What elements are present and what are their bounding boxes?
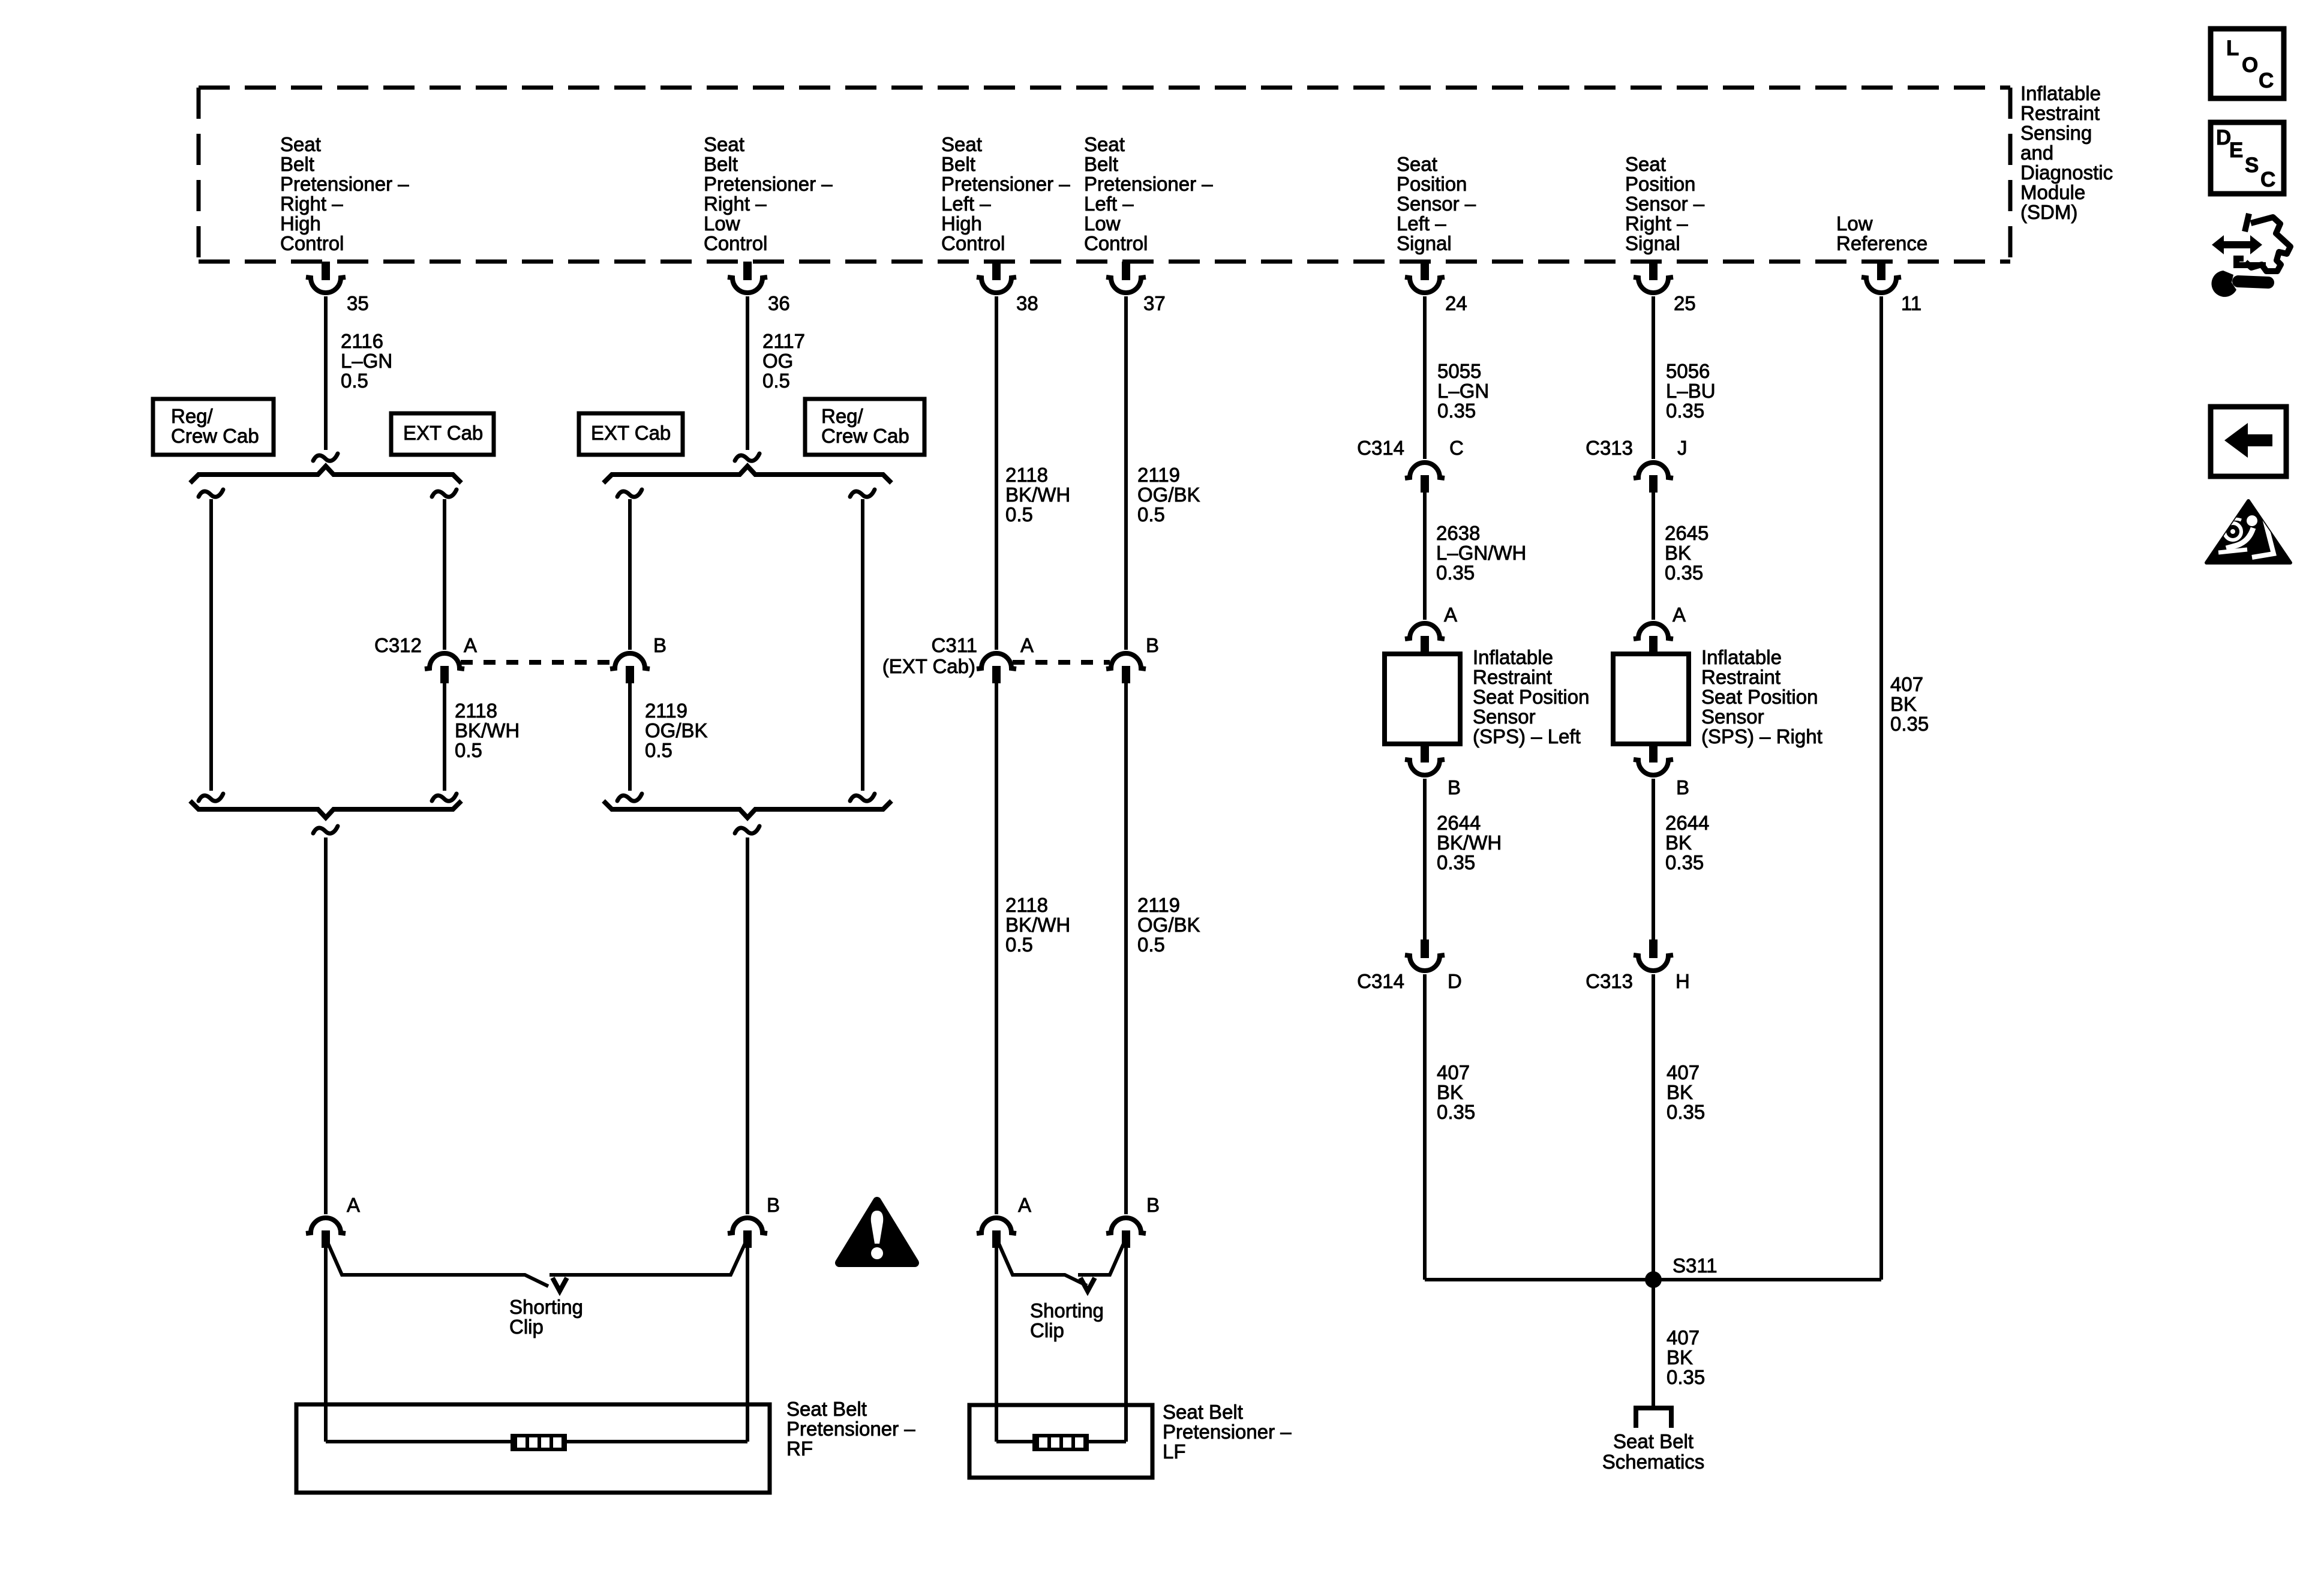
wire 5055 from pin 24	[1423, 296, 1427, 459]
connector C311 pin B	[1106, 653, 1146, 683]
wire break g1 merged feed	[313, 826, 338, 833]
connector C313 pin H	[1634, 939, 1673, 971]
component SPS left box	[1385, 654, 1460, 744]
svg-text:EXT Cab: EXT Cab	[591, 422, 671, 444]
svg-text:Seat Belt: Seat Belt	[1613, 1430, 1694, 1452]
svg-text:11: 11	[1901, 292, 1921, 314]
options brace group1 top	[190, 466, 461, 483]
wire break g1 left child top	[199, 490, 223, 497]
svg-text:C: C	[1449, 437, 1464, 459]
wire break g2 left child bottom	[617, 794, 642, 801]
svg-text:D: D	[1448, 970, 1462, 992]
svg-text:C313: C313	[1586, 970, 1633, 992]
wire 2119 from C311 B lower	[1124, 683, 1128, 1214]
icon back arrow box	[2211, 407, 2286, 476]
wire g1 right child lower (2118)	[443, 683, 446, 791]
svg-text:C313: C313	[1586, 437, 1633, 459]
connector SDM pin 38	[977, 262, 1016, 293]
wire break g2 right child top	[850, 490, 875, 497]
svg-text:(EXT Cab): (EXT Cab)	[882, 655, 975, 677]
wire 2118 to pretensioner RF A	[324, 837, 328, 1214]
wire g1 left child (Reg/Crew Cab)	[209, 499, 213, 791]
option box EXT Cab (group2)	[579, 413, 683, 455]
svg-text:C312: C312	[374, 634, 422, 656]
svg-text:A: A	[1444, 604, 1457, 626]
wire 2645 to SPS right	[1652, 493, 1655, 620]
options brace group2 bottom	[603, 801, 891, 818]
wire break g2 left child top	[617, 490, 642, 497]
wire 2644 from SPS right	[1652, 779, 1655, 939]
wire break g1 right child bottom	[432, 794, 457, 801]
wire 2116 from pin 35	[324, 296, 328, 450]
connector SPS right pin B	[1634, 744, 1673, 775]
dashed connector link C311 A-B	[1013, 660, 1110, 665]
svg-text:C314: C314	[1357, 970, 1404, 992]
warning triangle caution	[839, 1201, 915, 1263]
svg-text:B: B	[1448, 776, 1461, 798]
wire g1 right child upper (2118 to C312 A)	[443, 499, 446, 650]
svg-text:B: B	[1146, 1194, 1160, 1216]
svg-text:A: A	[1020, 634, 1034, 656]
svg-text:A: A	[1673, 604, 1686, 626]
connector SPS right pin A	[1634, 623, 1673, 653]
wire break pin36 feed	[735, 454, 759, 461]
svg-text:A: A	[347, 1194, 360, 1216]
option box Reg/Crew Cab (left)	[153, 399, 274, 455]
wire 2119 from pin 37 upper	[1124, 296, 1128, 650]
icon DESC box	[2211, 122, 2284, 194]
icon diagnostic (arrow + part + wrench)	[2211, 214, 2290, 297]
wire 407 from C313 H	[1652, 974, 1655, 1280]
wire g2 right child (Reg/Crew Cab)	[861, 499, 864, 791]
svg-text:C311: C311	[932, 634, 977, 656]
dashed connector link C312 A-B	[461, 660, 614, 665]
connector pretensioner RF pin A	[306, 1218, 346, 1248]
connector SDM pin 35	[306, 262, 346, 293]
svg-text:38: 38	[1016, 292, 1038, 314]
wire RF squib left lead	[326, 1440, 511, 1443]
component Seat Belt Pretensioner RF box	[296, 1404, 770, 1493]
connector pretensioner LF pin B	[1106, 1218, 1146, 1248]
squib element LF	[1032, 1434, 1089, 1451]
svg-text:36: 36	[768, 292, 790, 314]
wire 2117 from pin 36	[746, 296, 749, 450]
wire RF A into box	[324, 1248, 328, 1442]
connector pretensioner LF pin A	[977, 1218, 1016, 1248]
connector SPS left pin A	[1405, 623, 1445, 653]
wire 407 low reference from pin 11	[1879, 296, 1883, 1280]
splice S311	[1645, 1271, 1662, 1288]
wire 2119 to pretensioner RF B	[746, 837, 749, 1214]
wire LF A into box	[995, 1248, 998, 1442]
connector C311 pin A	[977, 653, 1016, 683]
connector SPS left pin B	[1405, 744, 1445, 775]
module SDM dashed box	[199, 88, 2010, 262]
svg-text:S311: S311	[1673, 1254, 1718, 1277]
connector C312 pin A	[425, 653, 464, 683]
svg-text:A: A	[1018, 1194, 1031, 1216]
svg-text:H: H	[1676, 970, 1690, 992]
svg-text:24: 24	[1445, 292, 1467, 314]
wire 2638 to SPS left	[1423, 493, 1427, 620]
connector SDM pin 11	[1861, 262, 1901, 293]
options brace group2 top	[603, 466, 891, 483]
svg-text:B: B	[767, 1194, 780, 1216]
shorting clip LF	[996, 1238, 1126, 1286]
svg-text:Schematics: Schematics	[1602, 1451, 1705, 1473]
wire 407 from C314 D	[1423, 974, 1427, 1280]
svg-text:EXT Cab: EXT Cab	[403, 422, 483, 444]
connector SDM pin 24	[1405, 262, 1445, 293]
wire LF squib left lead	[996, 1440, 1032, 1443]
option box Reg/Crew Cab (right)	[805, 399, 924, 455]
wire 2118 from C311 A lower	[995, 683, 998, 1214]
wire LF B into box	[1124, 1248, 1128, 1442]
component Seat Belt Pretensioner LF box	[969, 1405, 1152, 1478]
wire 2118 from pin 38 upper	[995, 296, 998, 650]
wire g2 left child upper (2119 to C312 B)	[628, 499, 632, 650]
svg-text:35: 35	[347, 292, 369, 314]
svg-text:J: J	[1677, 437, 1688, 459]
wire RF squib right lead	[567, 1440, 747, 1443]
off-page connector to Seat Belt Schematics	[1634, 1408, 1674, 1428]
connector SDM pin 25	[1634, 262, 1673, 293]
icon LOC box	[2211, 29, 2284, 98]
svg-text:B: B	[1146, 634, 1159, 656]
wire RF B into box	[746, 1248, 749, 1442]
connector SDM pin 36	[728, 262, 767, 293]
svg-text:25: 25	[1674, 292, 1696, 314]
wire splice bus S311	[1425, 1278, 1881, 1281]
options brace group1 bottom	[190, 801, 461, 818]
wire break g2 merged feed	[735, 826, 759, 833]
wire 407 below S311	[1652, 1280, 1655, 1406]
connector C314 pin D	[1405, 939, 1445, 971]
connector C314 pin C	[1405, 463, 1445, 493]
svg-text:C314: C314	[1357, 437, 1404, 459]
connector C313 pin J	[1634, 463, 1673, 493]
wire break g2 right child bottom	[850, 794, 875, 801]
wire break pin35 feed	[313, 454, 338, 461]
connector SDM pin 37	[1106, 262, 1146, 293]
squib element RF	[511, 1434, 567, 1451]
wire break g1 left child bottom	[199, 794, 223, 801]
svg-text:B: B	[1676, 776, 1689, 798]
connector pretensioner RF pin B	[728, 1218, 767, 1248]
wire 5056 from pin 25	[1652, 296, 1655, 459]
svg-text:37: 37	[1143, 292, 1166, 314]
wire break g1 right child top	[432, 490, 457, 497]
wire 2644 from SPS left	[1423, 779, 1427, 939]
svg-text:A: A	[464, 634, 477, 656]
connector C312 pin B	[610, 653, 650, 683]
wire g2 left child lower (2119)	[628, 683, 632, 791]
wire LF squib right lead	[1089, 1440, 1126, 1443]
component SPS right box	[1613, 654, 1689, 744]
svg-text:B: B	[653, 634, 666, 656]
shorting clip RF	[326, 1238, 747, 1286]
option box EXT Cab (group1)	[391, 413, 494, 455]
